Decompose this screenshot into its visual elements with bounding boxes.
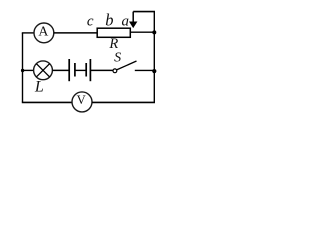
svg-text:b: b <box>105 10 113 29</box>
svg-text:L: L <box>34 79 44 96</box>
wire left rail to lamp <box>23 69 35 71</box>
wire right rail <box>153 12 155 103</box>
rheostat slider arrow <box>129 12 137 29</box>
node junction left rail / lamp branch <box>21 69 24 72</box>
svg-text:A: A <box>38 23 48 38</box>
wire between battery cells <box>75 69 86 71</box>
ammeter A <box>34 23 54 43</box>
switch S pivot and blade <box>113 61 137 73</box>
svg-text:V: V <box>77 93 86 107</box>
battery cell 1 short plate <box>74 63 76 77</box>
wire left rail <box>22 33 24 102</box>
voltmeter V <box>72 92 92 112</box>
wire ammeter to rheostat <box>54 32 97 34</box>
wire lamp to battery <box>52 69 69 71</box>
wire bottom left segment <box>22 101 72 103</box>
svg-text:a: a <box>122 13 130 29</box>
svg-text:c: c <box>87 13 94 29</box>
wire slider to right rail (top) <box>133 11 155 13</box>
node junction switch branch / right rail <box>152 69 156 73</box>
svg-text:R: R <box>108 36 118 52</box>
node junction resistor / right rail <box>152 30 156 34</box>
resistor R body <box>97 28 130 37</box>
battery cell 2 short plate <box>85 63 87 77</box>
wire bottom right segment <box>92 101 155 103</box>
svg-text:S: S <box>114 51 121 66</box>
wire top branch left segment <box>22 32 34 34</box>
lamp L <box>34 61 53 80</box>
battery cell 1 long plate <box>68 59 70 81</box>
battery cell 2 long plate <box>89 59 91 81</box>
wire resistor right terminal <box>131 31 155 33</box>
wire switch to right rail <box>135 69 155 71</box>
wire battery to switch <box>90 69 113 71</box>
